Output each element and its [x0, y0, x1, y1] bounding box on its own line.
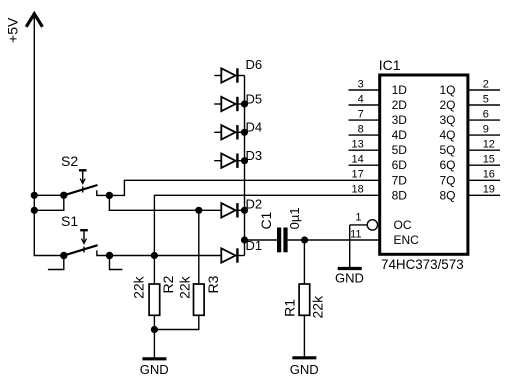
- resistor R1: [282, 240, 326, 357]
- wire IC pin 18 to D1/S1 node: [154, 195, 379, 255]
- node S2 right contact: [106, 192, 113, 199]
- svg-text:C1: C1: [258, 211, 274, 229]
- svg-text:0µ1: 0µ1: [287, 207, 302, 229]
- svg-text:7D: 7D: [392, 173, 408, 187]
- wire S2 right contact to IC pin 17: [109, 180, 379, 195]
- svg-text:GND: GND: [335, 271, 364, 286]
- diode D2: [199, 197, 262, 218]
- pin 12 stub: [468, 139, 500, 151]
- svg-text:14: 14: [352, 154, 364, 166]
- svg-text:D6: D6: [246, 57, 263, 72]
- svg-text:19: 19: [483, 184, 495, 196]
- diode bus vertical wire: [244, 76, 246, 256]
- svg-text:R1: R1: [282, 299, 298, 317]
- svg-text:9: 9: [483, 123, 489, 135]
- resistor R2: [131, 256, 176, 330]
- svg-text:GND: GND: [290, 362, 319, 377]
- wire rail to S2 left contact: [34, 194, 64, 196]
- pin 13 stub: [349, 139, 380, 151]
- pin 4 stub: [349, 93, 380, 105]
- wire S1 right contact to D1 anode: [110, 255, 222, 257]
- svg-text:3: 3: [358, 78, 364, 90]
- svg-text:1D: 1D: [392, 83, 408, 97]
- svg-text:8Q: 8Q: [439, 188, 455, 202]
- node D1 / R2 / pin18 junction: [151, 252, 158, 259]
- wire junction to ground: [153, 330, 155, 359]
- ground symbol below R2/R3: [140, 359, 169, 377]
- ground symbol at IC: [335, 269, 364, 286]
- pin 8 stub: [349, 123, 380, 135]
- svg-text:ENC: ENC: [394, 233, 420, 247]
- node S2 left contact: [60, 192, 67, 199]
- svg-text:7Q: 7Q: [439, 173, 455, 187]
- svg-text:5: 5: [483, 93, 489, 105]
- svg-text:12: 12: [483, 139, 495, 151]
- diode D6: [214, 57, 262, 83]
- pin 1 OC stub and bubble: [350, 211, 378, 230]
- svg-text:8: 8: [358, 123, 364, 135]
- svg-text:6: 6: [483, 108, 489, 120]
- pin 5 stub: [468, 93, 500, 105]
- svg-text:74HC373/573: 74HC373/573: [381, 257, 464, 272]
- svg-text:GND: GND: [140, 362, 169, 377]
- pin 9 stub: [468, 123, 500, 135]
- wire +5V rail down to S1: [34, 15, 64, 256]
- svg-text:S2: S2: [61, 153, 78, 169]
- svg-text:+5V: +5V: [5, 17, 21, 43]
- node rail/S2 upper junction: [31, 192, 38, 199]
- node S1 right contact: [106, 252, 113, 259]
- svg-text:16: 16: [483, 169, 495, 181]
- svg-text:11: 11: [350, 229, 361, 241]
- svg-text:22k: 22k: [177, 275, 193, 299]
- S1 right spare terminal stub: [110, 256, 123, 270]
- svg-text:17: 17: [352, 169, 364, 181]
- svg-text:IC1: IC1: [379, 57, 401, 73]
- pin 16 stub: [468, 169, 500, 181]
- svg-text:1Q: 1Q: [439, 83, 455, 97]
- svg-text:1: 1: [355, 211, 361, 223]
- wire OC to ground: [349, 225, 351, 267]
- node rail/S2 lower junction: [31, 207, 38, 214]
- svg-text:18: 18: [352, 184, 364, 196]
- pin 2 stub: [468, 78, 500, 90]
- node S1 left contact: [60, 252, 67, 259]
- svg-text:4D: 4D: [392, 128, 408, 142]
- pin 15 stub: [468, 154, 500, 166]
- svg-text:15: 15: [483, 154, 495, 166]
- svg-text:4: 4: [358, 93, 364, 105]
- svg-text:5D: 5D: [392, 143, 408, 157]
- switch S1: [61, 213, 110, 256]
- svg-text:OC: OC: [394, 218, 412, 232]
- svg-text:5Q: 5Q: [439, 143, 455, 157]
- svg-text:R2: R2: [160, 275, 176, 293]
- svg-text:7: 7: [358, 108, 364, 120]
- svg-text:6Q: 6Q: [439, 158, 455, 172]
- svg-text:R3: R3: [205, 275, 221, 293]
- pin 7 stub: [349, 108, 380, 120]
- diode D3: [214, 148, 262, 168]
- svg-text:22k: 22k: [310, 295, 326, 319]
- pin 3 stub: [349, 78, 380, 90]
- node D2 anode / R3 junction: [195, 207, 202, 214]
- wire rail lower link to S2 left contact: [34, 195, 64, 210]
- node D4 cathode on bus: [241, 129, 248, 136]
- switch S2: [61, 153, 109, 195]
- svg-text:8D: 8D: [392, 188, 408, 202]
- svg-text:3D: 3D: [392, 113, 408, 127]
- node C1 / R1 / ENC junction: [301, 236, 308, 243]
- svg-text:2: 2: [483, 78, 489, 90]
- op IC1 74HC373/573 latch box: [379, 57, 468, 272]
- node D3 cathode on bus: [241, 157, 248, 164]
- node D2 cathode on bus: [241, 207, 248, 214]
- wire S2 right contact down to D2 anode row: [109, 195, 198, 210]
- S1 left spare terminal stub: [48, 256, 64, 270]
- svg-text:2Q: 2Q: [439, 98, 455, 112]
- ground symbol below R1: [290, 358, 319, 377]
- svg-text:13: 13: [352, 139, 364, 151]
- svg-text:6D: 6D: [392, 158, 408, 172]
- resistor R3: [154, 210, 221, 329]
- pin 6 stub: [468, 108, 500, 120]
- node R2 / R3 ground junction: [151, 326, 158, 333]
- svg-text:4Q: 4Q: [439, 128, 455, 142]
- diode D1: [221, 238, 262, 263]
- +5V supply arrow: [26, 14, 42, 27]
- pin 14 stub: [349, 154, 380, 166]
- node D5 cathode on bus: [241, 100, 248, 107]
- node bus / C1 junction: [241, 236, 248, 243]
- svg-text:S1: S1: [61, 213, 78, 229]
- pin 19 stub: [468, 184, 500, 196]
- svg-text:D2: D2: [246, 197, 263, 212]
- diode D4: [214, 120, 262, 140]
- svg-text:22k: 22k: [131, 275, 147, 299]
- wire C1 junction to IC pin 11 ENC: [305, 239, 380, 241]
- diode D5: [214, 91, 262, 111]
- svg-text:2D: 2D: [392, 98, 408, 112]
- capacitor C1: [245, 207, 305, 252]
- svg-text:3Q: 3Q: [439, 113, 455, 127]
